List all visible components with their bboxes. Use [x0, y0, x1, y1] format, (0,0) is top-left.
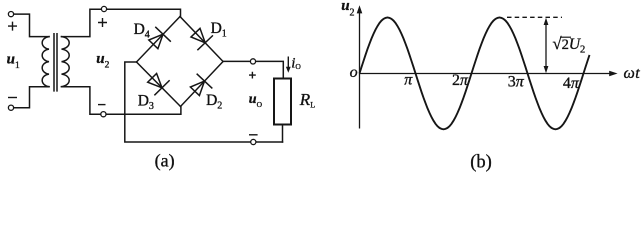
diode D4 — [149, 27, 171, 48]
svg-text:2π: 2π — [452, 72, 469, 89]
wire resistor bottom — [282, 125, 284, 143]
wire right vertex to plus terminal — [223, 60, 250, 62]
transformer secondary winding — [62, 37, 70, 87]
diode D2 — [190, 74, 211, 95]
wire secondary minus to bottom vertex — [106, 107, 181, 115]
diode D1 — [191, 28, 212, 49]
svg-text:D1: D1 — [211, 20, 227, 40]
bridge edge D4 side — [137, 17, 181, 63]
label minus primary — [8, 97, 17, 99]
label minus output — [249, 134, 258, 136]
sine wave u2 — [360, 18, 590, 130]
terminal output minus — [251, 139, 256, 144]
svg-text:D4: D4 — [134, 21, 150, 41]
svg-text:(b): (b) — [470, 153, 492, 173]
wire top rail to bridge — [107, 9, 181, 16]
wire plus terminal to resistor top — [256, 61, 284, 78]
peak dashed reference line — [507, 16, 562, 18]
svg-text:D2: D2 — [206, 92, 222, 112]
bridge edge D1 side — [180, 17, 223, 62]
svg-text:(a): (a) — [155, 151, 175, 172]
label plus primary — [8, 22, 17, 31]
diode D3 — [148, 74, 169, 95]
svg-text:D3: D3 — [138, 92, 154, 112]
wire secondary bottom lead — [62, 87, 101, 114]
svg-text:ωt: ωt — [624, 65, 641, 82]
label minus secondary — [98, 104, 106, 106]
amplitude arrow sqrt2 U2 — [544, 18, 549, 73]
svg-text:RL: RL — [299, 90, 315, 109]
terminal secondary plus — [101, 6, 106, 11]
label plus output — [249, 72, 256, 79]
svg-text:u2: u2 — [96, 51, 109, 71]
transformer primary winding — [42, 37, 49, 87]
radical overbar — [560, 36, 571, 38]
svg-text:3π: 3π — [508, 74, 525, 91]
transformer core — [54, 34, 57, 91]
label plus secondary — [98, 18, 107, 27]
bridge edge D3 side — [137, 62, 181, 107]
svg-text:o: o — [350, 64, 358, 81]
wire left vertex to bottom rail — [125, 62, 283, 142]
resistor RL — [274, 79, 291, 125]
wire secondary top lead — [62, 9, 102, 36]
terminal primary bottom — [8, 105, 13, 110]
svg-text:uO: uO — [249, 92, 263, 109]
waveform axes — [360, 9, 612, 129]
svg-text:iO: iO — [291, 55, 301, 71]
wire primary top lead — [14, 14, 49, 36]
current arrow iO — [286, 57, 291, 73]
svg-text:u2: u2 — [341, 0, 354, 18]
terminal secondary minus — [101, 112, 106, 117]
svg-text:π: π — [404, 72, 413, 89]
svg-text:4π: 4π — [563, 75, 580, 92]
terminal output plus — [250, 59, 255, 64]
wire primary bottom lead — [14, 87, 49, 108]
terminal primary top — [8, 12, 13, 17]
svg-text:u1: u1 — [7, 52, 20, 72]
bridge edge D2 side — [181, 62, 224, 107]
